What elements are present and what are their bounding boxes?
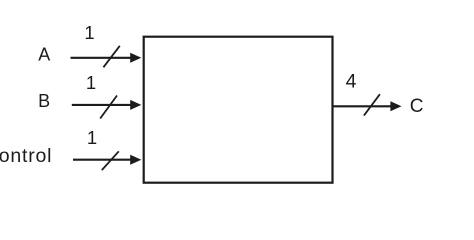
svg-text:B: B (38, 91, 50, 111)
width label 1 (bus Control) (87, 127, 97, 148)
wire C (output) (333, 105, 392, 107)
input label Control (0, 145, 52, 167)
arrowhead B (130, 100, 141, 110)
width label 4 (bus C) (346, 71, 357, 93)
bus slash Control (102, 151, 119, 170)
bus slash B (100, 96, 117, 119)
block U1 (logic block box) (144, 37, 333, 183)
output label C (410, 96, 424, 117)
svg-text:A: A (38, 45, 50, 65)
wire A (71, 57, 132, 59)
bus slash A (103, 46, 119, 68)
svg-text:4: 4 (346, 71, 357, 93)
arrowhead Control (130, 155, 141, 165)
svg-text:1: 1 (87, 127, 97, 148)
svg-text:1: 1 (84, 22, 94, 43)
svg-text:C: C (410, 96, 424, 117)
input label B (38, 91, 50, 111)
svg-text:1: 1 (86, 72, 96, 93)
width label 1 (bus B) (86, 72, 96, 93)
arrowhead A (130, 53, 141, 63)
svg-text:Control: Control (0, 145, 52, 167)
wire B (72, 104, 132, 106)
bus slash C (364, 94, 380, 115)
wire Control (73, 159, 132, 161)
width label 1 (bus A) (84, 22, 94, 43)
arrowhead C (390, 101, 401, 111)
input label A (38, 45, 50, 65)
